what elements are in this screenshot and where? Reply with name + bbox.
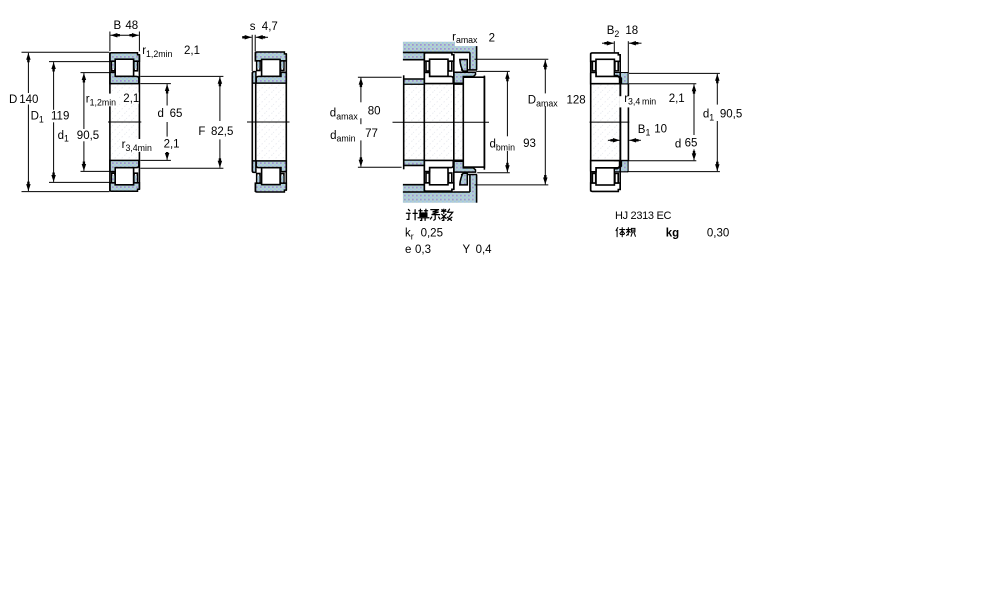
svg-text:F: F bbox=[198, 126, 205, 138]
svg-text:2,1: 2,1 bbox=[184, 45, 200, 57]
svg-text:18: 18 bbox=[625, 25, 638, 37]
svg-text:4,7: 4,7 bbox=[262, 21, 278, 33]
svg-text:140: 140 bbox=[19, 94, 38, 106]
svg-text:82,5: 82,5 bbox=[211, 126, 233, 138]
svg-text:128: 128 bbox=[567, 94, 586, 106]
svg-text:48: 48 bbox=[125, 20, 138, 32]
svg-text:HJ 2313 EC: HJ 2313 EC bbox=[615, 210, 671, 222]
svg-text:d: d bbox=[158, 108, 164, 120]
svg-text:s: s bbox=[250, 21, 256, 33]
svg-text:D: D bbox=[9, 94, 17, 106]
svg-text:0,25: 0,25 bbox=[421, 228, 443, 240]
svg-text:90,5: 90,5 bbox=[77, 130, 99, 142]
svg-text:0,30: 0,30 bbox=[707, 228, 729, 240]
svg-text:65: 65 bbox=[170, 108, 183, 120]
svg-text:Y: Y bbox=[463, 244, 471, 256]
svg-text:kg: kg bbox=[666, 228, 679, 240]
svg-text:d: d bbox=[675, 139, 681, 151]
svg-text:119: 119 bbox=[51, 111, 69, 123]
svg-text:10: 10 bbox=[654, 123, 667, 135]
svg-text:90,5: 90,5 bbox=[720, 108, 742, 120]
svg-text:77: 77 bbox=[365, 128, 378, 140]
svg-text:2,1: 2,1 bbox=[123, 93, 139, 105]
svg-text:65: 65 bbox=[685, 138, 698, 150]
svg-text:80: 80 bbox=[368, 106, 381, 118]
svg-text:2,1: 2,1 bbox=[164, 138, 180, 150]
svg-text:93: 93 bbox=[523, 138, 536, 150]
svg-text:e: e bbox=[405, 244, 411, 256]
svg-text:2,1: 2,1 bbox=[669, 93, 685, 105]
svg-text:B: B bbox=[114, 20, 122, 32]
svg-text:0,3: 0,3 bbox=[415, 244, 431, 256]
svg-text:2: 2 bbox=[489, 32, 495, 44]
svg-text:0,4: 0,4 bbox=[476, 244, 493, 256]
